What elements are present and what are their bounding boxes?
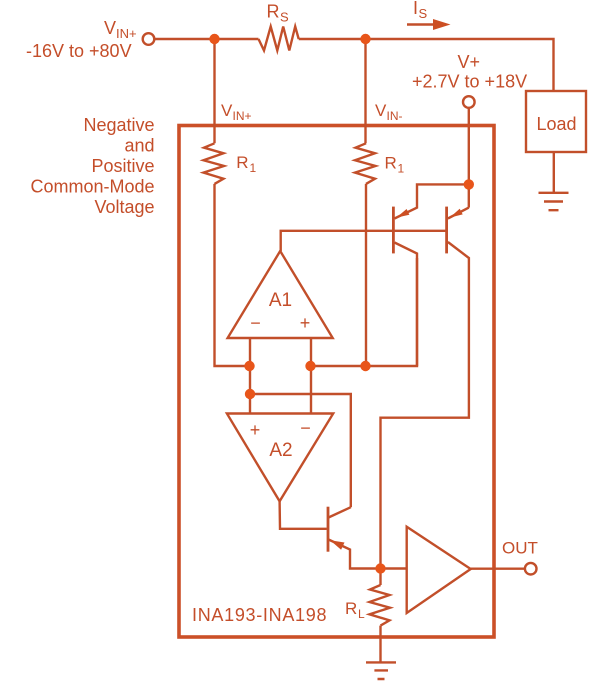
svg-text:A2: A2 (269, 440, 292, 461)
svg-text:INA193-INA198: INA193-INA198 (192, 605, 327, 625)
svg-text:-16V to +80V: -16V to +80V (26, 41, 132, 61)
svg-text:+: + (250, 420, 261, 440)
svg-text:Negative: Negative (83, 115, 154, 135)
svg-text:+: + (300, 313, 311, 333)
svg-text:R: R (236, 153, 248, 172)
svg-text:IN+: IN+ (116, 26, 137, 41)
svg-text:V+: V+ (458, 52, 481, 72)
svg-text:−: − (300, 418, 311, 438)
svg-text:1: 1 (398, 162, 405, 176)
svg-text:R: R (267, 2, 280, 22)
svg-text:Positive: Positive (91, 156, 154, 176)
svg-text:I: I (413, 0, 418, 18)
svg-text:V: V (221, 101, 233, 120)
svg-text:S: S (280, 10, 289, 25)
svg-text:OUT: OUT (502, 539, 538, 558)
svg-text:L: L (358, 607, 365, 621)
svg-text:Common-Mode: Common-Mode (30, 177, 154, 197)
svg-text:IN-: IN- (387, 109, 403, 123)
svg-text:S: S (419, 6, 428, 21)
svg-text:Load: Load (537, 114, 577, 134)
svg-text:R: R (345, 599, 357, 618)
svg-text:and: and (124, 136, 154, 156)
svg-text:+2.7V to +18V: +2.7V to +18V (412, 72, 527, 92)
svg-text:IN+: IN+ (233, 109, 252, 123)
svg-text:A1: A1 (269, 290, 292, 311)
svg-text:−: − (250, 313, 261, 333)
svg-text:Voltage: Voltage (94, 197, 154, 217)
svg-text:V: V (104, 18, 116, 38)
svg-text:R: R (385, 154, 397, 173)
svg-text:V: V (375, 101, 387, 120)
svg-text:1: 1 (250, 161, 257, 175)
